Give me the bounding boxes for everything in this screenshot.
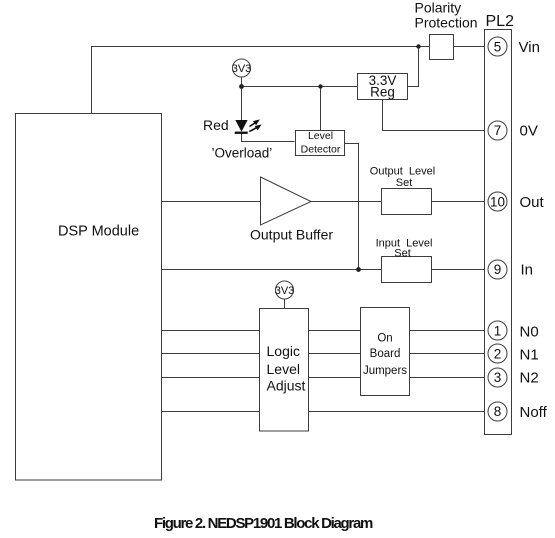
svg-text:PL2: PL2 <box>486 13 515 30</box>
svg-text:2: 2 <box>494 347 502 362</box>
svg-text:8: 8 <box>494 404 502 419</box>
svg-text:Red: Red <box>203 117 229 133</box>
svg-text:Reg: Reg <box>370 85 395 100</box>
svg-text:N1: N1 <box>520 347 539 364</box>
svg-text:Noff: Noff <box>520 404 548 421</box>
svg-text:In: In <box>521 262 534 279</box>
svg-text:7: 7 <box>494 123 502 138</box>
svg-text:Vin: Vin <box>519 39 540 56</box>
svg-text:Set: Set <box>396 177 413 189</box>
svg-text:Detector: Detector <box>301 143 341 155</box>
svg-text:N2: N2 <box>520 370 539 387</box>
svg-text:Logic: Logic <box>267 343 300 359</box>
svg-text:5: 5 <box>494 40 502 55</box>
svg-text:DSP Module: DSP Module <box>58 224 139 240</box>
svg-text:Set: Set <box>394 248 411 260</box>
svg-text:Out: Out <box>520 194 545 211</box>
svg-text:10: 10 <box>490 195 505 210</box>
svg-text:Polarity: Polarity <box>415 0 462 16</box>
svg-text:3: 3 <box>494 370 502 385</box>
svg-text:3V3: 3V3 <box>232 63 252 75</box>
svg-text:Level: Level <box>267 361 300 377</box>
svg-text:9: 9 <box>494 262 502 277</box>
svg-text:Protection: Protection <box>415 15 478 31</box>
svg-text:Output Level: Output Level <box>370 166 435 178</box>
svg-text:Figure 2. NEDSP1901 Block Diag: Figure 2. NEDSP1901 Block Diagram <box>154 515 373 532</box>
svg-text:On: On <box>377 333 392 345</box>
svg-text:Board: Board <box>370 348 401 360</box>
svg-text:’Overload’: ’Overload’ <box>212 146 273 161</box>
svg-text:Output Buffer: Output Buffer <box>250 227 333 243</box>
svg-text:0V: 0V <box>520 123 538 140</box>
svg-text:N0: N0 <box>520 324 539 341</box>
svg-text:Adjust: Adjust <box>267 378 306 394</box>
svg-text:Level: Level <box>308 130 333 142</box>
svg-text:Jumpers: Jumpers <box>363 365 407 377</box>
svg-text:1: 1 <box>494 324 502 339</box>
svg-text:3V3: 3V3 <box>275 285 295 297</box>
